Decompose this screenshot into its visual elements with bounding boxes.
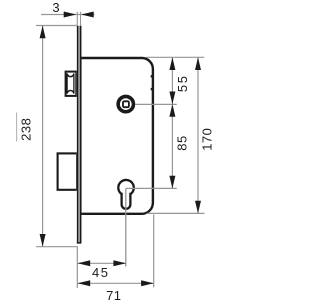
- svg-text:3: 3: [52, 0, 60, 15]
- dimension line 55-85: [171, 57, 173, 188]
- svg-text:71: 71: [106, 288, 121, 303]
- case seam notch lower: [151, 88, 153, 90]
- lock case body: [80, 58, 152, 214]
- arrow 85 top: [169, 104, 175, 117]
- extension line faceplate-left above (dim 3): [76, 12, 78, 26]
- extension line faceplate-right above (dim 3): [80, 12, 82, 26]
- spindle hole: [118, 96, 133, 111]
- extension line faceplate vertical below: [76, 247, 78, 288]
- deadbolt: [58, 153, 78, 189]
- extension line case-back vertical below: [153, 215, 155, 288]
- svg-text:45: 45: [92, 265, 110, 280]
- arrow 238 bottom: [40, 234, 46, 247]
- faceplate: [77, 26, 82, 244]
- svg-text:238: 238: [18, 118, 33, 141]
- latch bolt: [66, 72, 77, 96]
- arrow 55 top: [169, 57, 175, 70]
- arrow 45 left: [78, 260, 91, 266]
- arrow 71 right: [141, 280, 154, 286]
- svg-text:55: 55: [175, 74, 190, 92]
- arrow 170 bottom: [195, 201, 201, 214]
- dimension line 45: [78, 262, 126, 264]
- arrow 238 top: [40, 26, 46, 39]
- extension line spindle axis: [136, 103, 177, 105]
- arrow dim3 right: [81, 12, 94, 18]
- arrow 85 bottom: [169, 176, 175, 189]
- arrow 71 left: [78, 280, 91, 286]
- svg-text:85: 85: [175, 135, 190, 150]
- dimension line 3: [41, 14, 95, 16]
- extension line top-right: [146, 56, 204, 58]
- case seam notch upper: [151, 75, 153, 77]
- arrow 55 bottom: [169, 92, 175, 105]
- extension line bottom-right: [147, 212, 205, 214]
- arrow 45 right: [113, 260, 126, 266]
- dimension line 170: [197, 57, 199, 213]
- extension line top-left: [36, 25, 77, 27]
- extension line bottom-left: [36, 246, 78, 248]
- extension line keyhole axis: [126, 187, 177, 189]
- svg-text:170: 170: [200, 128, 215, 151]
- dimension line 71: [78, 282, 154, 284]
- dimension line 238: [42, 26, 44, 247]
- arrow 170 top: [195, 57, 201, 70]
- arrow dim3 left: [64, 12, 77, 18]
- extension line keyhole vertical: [125, 188, 127, 266]
- stray tick left of 238 label: [16, 113, 18, 142]
- keyhole (euro cylinder profile): [118, 180, 134, 209]
